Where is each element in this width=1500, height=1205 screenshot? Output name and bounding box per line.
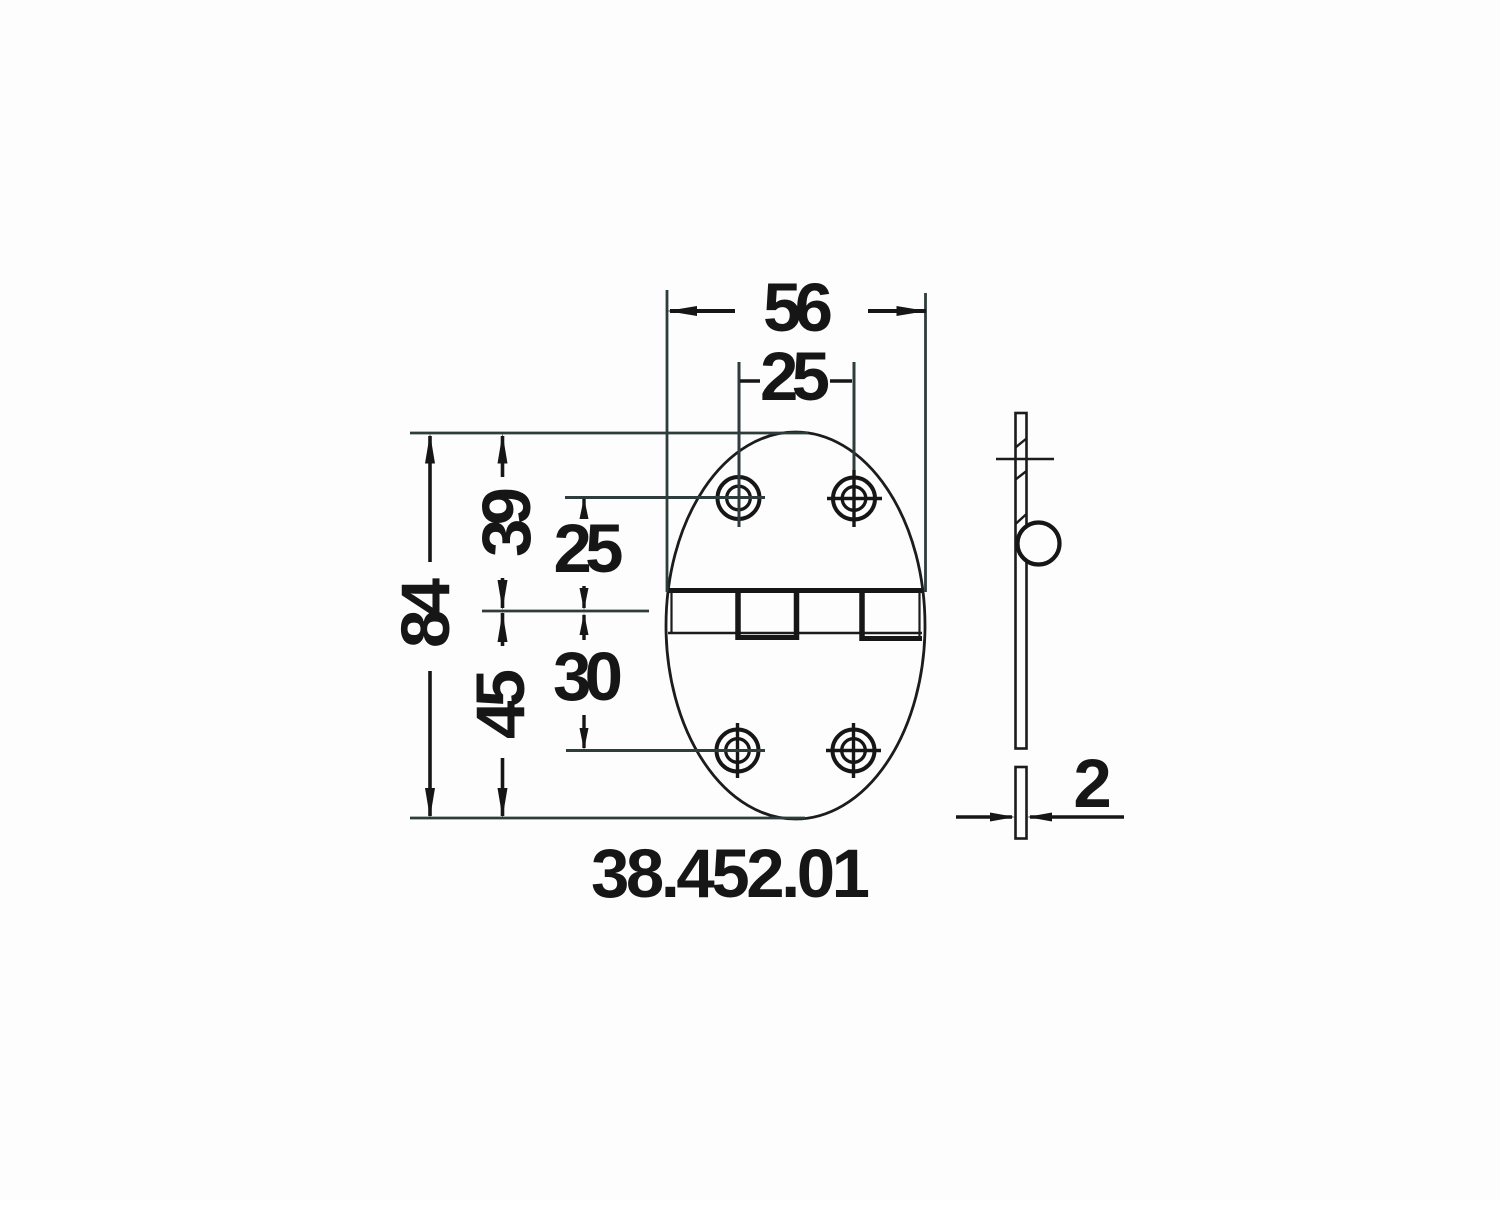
extension line bottom hole row (y=750.5) [566, 749, 765, 752]
dimension 45 line with arrows (x=502.5) [498, 612, 508, 818]
knuckle divider 2 [794, 588, 800, 640]
dimension 2 left arrow [956, 813, 1015, 822]
svg-text:25: 25 [760, 338, 830, 415]
extension line bottom (oval bottom, y=818) [410, 817, 805, 820]
svg-text:38.452.01: 38.452.01 [591, 835, 870, 912]
side view lower plate segment [1016, 767, 1027, 839]
extension line 56-right (x=926.5) [924, 293, 927, 592]
dimension 25 right tick [830, 379, 852, 383]
side view countersink mark 3 [1016, 514, 1027, 524]
knuckle segment 4 bottom thick edge [860, 636, 923, 641]
svg-text:30: 30 [553, 638, 623, 715]
extension line top (oval top, y=433) [410, 432, 808, 435]
dimension 39 line with arrows (x=502.5) [498, 434, 508, 611]
screw hole bottom-left [717, 723, 759, 778]
extension line top hole row (y=497.5) [565, 496, 765, 499]
knuckle left end double line [670, 590, 672, 633]
dimension text 2 [1073, 745, 1111, 822]
knuckle divider 1 [735, 588, 741, 640]
dimension text 25 horizontal [760, 338, 830, 415]
svg-text:84: 84 [387, 578, 464, 648]
dimension 25 vertical arrows (x=584) [580, 498, 589, 611]
knuckle band bottom thin edge [668, 632, 922, 635]
dimension 25 left tick [740, 379, 760, 383]
svg-text:2: 2 [1073, 745, 1111, 822]
svg-text:56: 56 [763, 269, 833, 346]
knuckle divider 3 [859, 588, 865, 641]
dimension 84 line with arrows (x=430) [425, 434, 435, 819]
svg-text:25: 25 [554, 510, 624, 587]
side view knuckle pin circle [1018, 523, 1060, 565]
side view hole centre tick [996, 458, 1054, 461]
screw hole top-right [827, 470, 882, 527]
side view plate (edge view) [1016, 413, 1027, 749]
knuckle right end double line [918, 592, 920, 638]
svg-text:39: 39 [468, 487, 545, 557]
extension line 25-right (x=854) [853, 362, 856, 470]
dimension 56 left arrow [667, 306, 735, 316]
dimension text 84 (rotated) [387, 578, 464, 648]
knuckle band top edge [668, 588, 922, 593]
dimension text 45 (rotated) [462, 669, 539, 739]
dimension text 56 [763, 269, 833, 346]
knuckle segment 2 bottom thick edge [736, 635, 799, 640]
dimension 30 arrows (x=584) [580, 613, 589, 750]
screw hole top-left [718, 477, 760, 519]
extension line hinge centre (y=611) [482, 610, 649, 613]
hinge oval outline (front view) [666, 432, 925, 819]
side view countersink mark 2 [1016, 471, 1027, 480]
dimension 56 right arrow [868, 306, 927, 316]
part number text 38.452.01 [591, 835, 870, 912]
dimension 2 right arrow [1027, 813, 1124, 822]
extension line 25-left (x=739) [738, 362, 741, 527]
dimension text 25 vertical [554, 510, 624, 587]
extension line 56-left (x=667) [666, 290, 669, 592]
svg-text:45: 45 [462, 669, 539, 739]
screw hole bottom-right [826, 723, 881, 778]
dimension text 30 [553, 638, 623, 715]
side view countersink mark 1 [1016, 439, 1027, 448]
dimension text 39 (rotated) [468, 487, 545, 557]
